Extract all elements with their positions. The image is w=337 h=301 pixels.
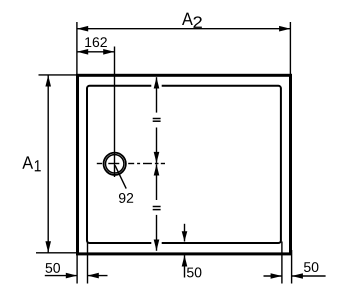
drain horizontal centerline (dash-dot) <box>97 163 165 165</box>
dimension 162 line <box>77 49 115 55</box>
dimension A1 extension line top <box>39 74 77 76</box>
bottom-left 50 extension line inner <box>87 242 89 284</box>
bottom-center 50 upper arrow <box>182 224 188 242</box>
dimension A2 extension line left <box>76 22 78 74</box>
equality symbol upper <box>153 119 161 122</box>
tray outer edge rectangle <box>78 75 291 254</box>
equality dimension vertical line segments <box>154 77 160 251</box>
tray inner edge rectangle (rounded) <box>87 84 281 246</box>
drain inner circle <box>106 155 124 173</box>
drain vertical extension line <box>114 47 116 178</box>
dimension A2 extension line right <box>289 22 291 74</box>
leader line for 92 <box>115 165 126 188</box>
bottom-left 50 extension line outer <box>76 250 78 284</box>
label 92 <box>119 193 133 203</box>
dimension A2 line <box>77 26 291 32</box>
bottom-center 50 lower arrow <box>182 255 188 277</box>
label 162 <box>85 37 107 47</box>
bottom-right 50 extension line inner <box>281 242 283 284</box>
dimension A1 line <box>45 75 51 252</box>
label A1 <box>22 156 40 171</box>
bottom-right 50 extension line outer <box>291 250 293 284</box>
label 50 bottom-left <box>46 263 60 273</box>
label 50 bottom-center <box>187 267 201 277</box>
bottom-left 50 dimension line and arrows <box>45 273 108 279</box>
label 50 bottom-right <box>304 262 318 272</box>
equality symbol lower <box>153 207 161 210</box>
drain outer circle <box>104 153 126 175</box>
label A2 <box>182 13 202 28</box>
dimension A1 extension line bottom <box>36 252 76 254</box>
bottom-right 50 dimension line and arrows <box>264 273 326 279</box>
